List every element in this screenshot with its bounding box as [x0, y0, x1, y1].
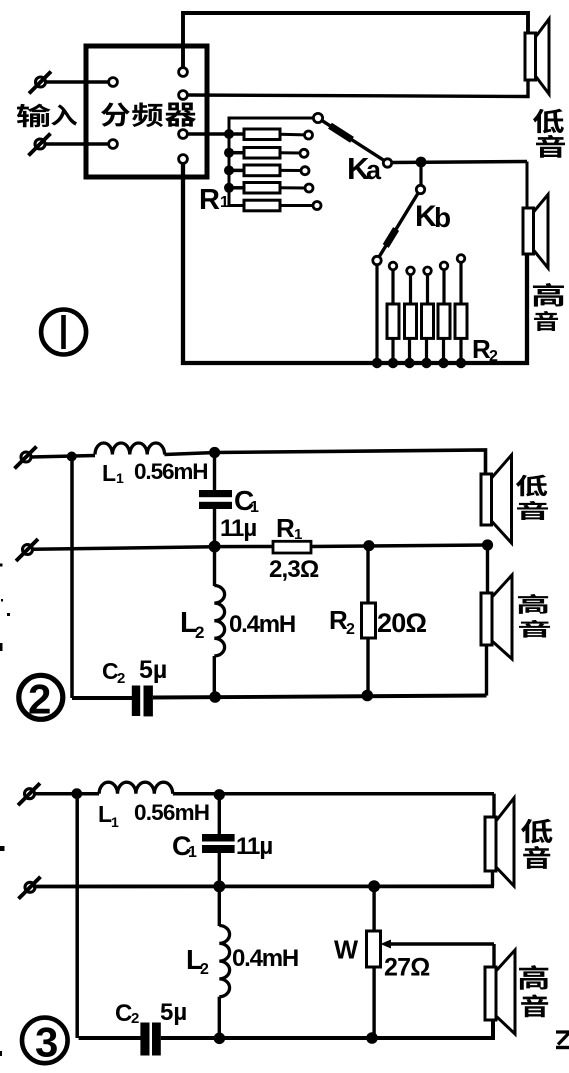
svg-text:20Ω: 20Ω: [377, 608, 426, 638]
label 分频器 (crossover): [101, 102, 130, 126]
switch Ka blade: [322, 121, 384, 161]
terminal (box right pin 3): [179, 68, 188, 77]
wire: [280, 133, 305, 137]
svg-text:11µ: 11µ: [236, 833, 272, 860]
wire: [485, 645, 488, 696]
wire: [366, 548, 369, 603]
wire (bottom bus fig1): [183, 163, 527, 363]
wire: [375, 265, 378, 364]
wire: [32, 547, 215, 550]
resistor R1 (fig 2): [273, 541, 311, 553]
page margin glyph (bottom right): [556, 1032, 569, 1045]
wire: [218, 887, 221, 927]
node: [214, 1033, 226, 1045]
svg-text:2: 2: [195, 623, 204, 642]
speaker LS5 (woofer, fig 3): [485, 817, 496, 871]
inductor L2 (fig 3): [219, 926, 229, 997]
wire: [75, 794, 79, 1038]
node: [366, 1032, 378, 1044]
svg-text:L: L: [98, 801, 112, 827]
node: [213, 880, 225, 892]
node: [362, 690, 374, 702]
svg-text:R: R: [276, 513, 295, 543]
wire: [366, 638, 369, 696]
resistor R1b: [244, 148, 280, 159]
speck (left margin small): [0, 643, 3, 651]
input terminal J5 (figure 3, +): [25, 789, 35, 799]
wire: [392, 162, 527, 163]
speaker LS1 (woofer, fig 1): [525, 33, 536, 80]
inductor L1 (fig 3): [99, 782, 173, 794]
switch Kb throw terminal: [373, 256, 381, 264]
wire: [459, 338, 462, 363]
speck (left margin, fig 2): [7, 613, 10, 616]
svg-text:0.4mH: 0.4mH: [229, 611, 295, 638]
node: [209, 691, 221, 703]
input terminal J1 (figure 1, +): [36, 77, 46, 87]
resistor R2d: [438, 304, 450, 338]
wire: [526, 162, 529, 209]
terminal (box right pin 5): [179, 130, 188, 139]
svg-text:11µ: 11µ: [220, 515, 256, 542]
terminal (R2 tap 1): [389, 262, 397, 270]
wire: [173, 792, 494, 796]
capacitor C2 (fig 3): [140, 1023, 149, 1056]
wire: [229, 169, 244, 173]
wire: [492, 794, 495, 817]
wire: [70, 457, 74, 698]
node: [224, 183, 234, 193]
node: [67, 452, 77, 462]
switch Kb pole terminal: [416, 185, 424, 193]
node: [71, 788, 82, 799]
inductor L1 (fig 2): [95, 443, 165, 455]
terminal (tap 2): [300, 149, 308, 157]
wire: [280, 151, 300, 154]
svg-text:a: a: [366, 155, 382, 185]
wire: [45, 80, 110, 84]
switch Ka throw terminal: [383, 159, 391, 167]
svg-text:C: C: [115, 1000, 132, 1027]
input terminal J3 (figure 2, +): [21, 452, 31, 462]
wire: [372, 967, 375, 1038]
node: [209, 541, 221, 553]
wire: [426, 274, 429, 305]
svg-text:2: 2: [131, 1010, 139, 1027]
capacitor C1 (fig 3): [202, 834, 235, 842]
wire: [372, 886, 375, 931]
resistor R2c: [422, 304, 434, 338]
node (R1 bus top): [224, 129, 234, 139]
wire (R1 bus): [229, 118, 318, 206]
wire: [442, 270, 445, 305]
node: [224, 148, 234, 158]
wire: [213, 452, 216, 490]
wire: [33, 884, 494, 888]
svg-text:2: 2: [117, 670, 125, 687]
svg-text:2: 2: [200, 961, 209, 978]
node: [456, 358, 466, 368]
wire: [218, 997, 221, 1038]
speaker LS2 (tweeter, fig 1): [523, 208, 534, 254]
terminal (tap 4): [305, 184, 313, 192]
svg-text:L: L: [102, 460, 116, 486]
node: [388, 358, 398, 368]
wire: [187, 80, 528, 97]
node: [368, 880, 380, 892]
wire: [311, 545, 488, 547]
wire: [391, 338, 394, 363]
resistor R1c: [244, 165, 280, 176]
terminal (tap 3): [301, 167, 309, 175]
resistor R1d: [244, 183, 280, 194]
wire: [218, 853, 221, 887]
svg-text:1: 1: [294, 526, 302, 543]
terminal (R2 tap 3): [424, 267, 432, 275]
terminal (R2 tap 4): [440, 262, 448, 270]
capacitor C1 (fig 2): [199, 490, 232, 497]
svg-text:R: R: [199, 184, 220, 216]
svg-text:0.4mH: 0.4mH: [232, 945, 298, 972]
wire: [425, 338, 428, 363]
wire: [442, 338, 445, 363]
inductor L2 (fig 2): [214, 586, 224, 656]
node: [482, 539, 493, 550]
wire: [280, 169, 301, 172]
svg-text:1: 1: [111, 814, 119, 830]
terminal (box left pin 1): [109, 78, 118, 87]
figure number 2: [19, 675, 63, 719]
svg-text:0.56mH: 0.56mH: [134, 459, 207, 484]
terminal (box right pin 4): [179, 91, 188, 100]
wire (bottom rail fig 2): [153, 696, 487, 698]
wire: [419, 165, 422, 186]
input terminal J6 (figure 3, -): [25, 882, 35, 892]
label 输入 (input): [17, 104, 51, 128]
svg-text:2,3Ω: 2,3Ω: [269, 556, 319, 583]
label 低音 (bass, fig 3): [521, 819, 552, 844]
svg-text:b: b: [434, 202, 451, 233]
wire (bottom rail fig 3): [161, 1020, 493, 1038]
figure number 3: [22, 1018, 68, 1064]
node: [421, 358, 431, 368]
terminal (tap 5): [313, 202, 321, 210]
label 高音 (treble, fig 3): [519, 965, 548, 990]
node: [404, 358, 414, 368]
svg-text:27Ω: 27Ω: [384, 954, 430, 982]
wire: [218, 795, 221, 834]
capacitor C2 (fig 2): [132, 686, 140, 717]
svg-text:W: W: [334, 937, 359, 965]
resistor R2a: [387, 304, 399, 338]
wire: [229, 186, 244, 190]
svg-text:1: 1: [188, 844, 197, 861]
svg-text:1: 1: [116, 470, 124, 486]
wire: [408, 338, 411, 363]
svg-text:5µ: 5µ: [139, 656, 167, 684]
resistor R2e: [455, 304, 467, 338]
wire (bottom rail fig 2 left): [72, 696, 133, 700]
svg-text:0.56mH: 0.56mH: [134, 800, 209, 825]
terminal (R2 tap 5): [457, 255, 465, 263]
node: [209, 447, 220, 458]
wire: [213, 656, 216, 698]
label 高音 (treble, fig 2): [518, 594, 548, 614]
resistor R1a: [244, 129, 280, 140]
speaker LS3 (woofer, fig 2): [481, 474, 492, 525]
node: [416, 157, 427, 168]
wire: [164, 453, 216, 455]
potentiometer W (fig 3): [367, 931, 381, 967]
terminal (R2 tap 2): [407, 267, 415, 275]
input terminal J2 (figure 1, -): [35, 139, 45, 149]
label 低音 (bass, fig 2): [516, 475, 547, 497]
speaker LS4 (tweeter, fig 2): [481, 593, 492, 645]
input terminal J4 (figure 2, -): [23, 545, 33, 555]
wire: [34, 792, 99, 796]
svg-text:1: 1: [250, 499, 259, 516]
wire: [280, 204, 313, 207]
figure number 1: [41, 310, 86, 355]
node: [214, 789, 225, 800]
wire: [491, 871, 494, 886]
svg-text:5µ: 5µ: [160, 999, 187, 1026]
switch Ka pole terminal: [313, 113, 322, 122]
svg-text:1: 1: [220, 194, 229, 211]
switch Kb blade: [379, 193, 418, 257]
wire: [215, 450, 486, 475]
wire: [409, 274, 412, 305]
terminal (box left pin 2): [109, 140, 118, 149]
resistor R2b: [405, 304, 417, 338]
wire: [459, 262, 462, 305]
speck (left margin, fig 3): [0, 846, 5, 851]
wire: [213, 547, 216, 586]
svg-text:2: 2: [346, 621, 355, 638]
wire: [183, 13, 528, 68]
wire: [215, 545, 273, 549]
resistor R2 (fig 2): [362, 603, 376, 638]
wire: [280, 186, 305, 189]
terminal (tap 1): [305, 131, 313, 139]
svg-text:2: 2: [28, 676, 51, 723]
wire: [213, 509, 216, 547]
wire: [492, 944, 495, 967]
node: [438, 358, 448, 368]
resistor R1e: [244, 200, 280, 211]
wire: [187, 132, 244, 136]
label 低音 (bass): [533, 109, 564, 134]
node: [372, 358, 382, 368]
crossover box (分频器) U1: [86, 46, 207, 177]
label 高音 (treble): [533, 283, 564, 307]
wire: [391, 270, 394, 305]
wire: [229, 151, 244, 155]
wire: [31, 456, 95, 458]
pot tap arrow: [381, 940, 392, 949]
wire (bottom rail fig 3 left): [79, 1036, 142, 1040]
speaker LS6 (tweeter, fig 3): [485, 967, 496, 1020]
svg-text:3: 3: [35, 1019, 58, 1066]
node: [224, 165, 234, 175]
wire: [45, 142, 110, 146]
wire: [486, 545, 489, 593]
node: [363, 540, 374, 551]
terminal (box bottom pin 6): [179, 155, 188, 164]
